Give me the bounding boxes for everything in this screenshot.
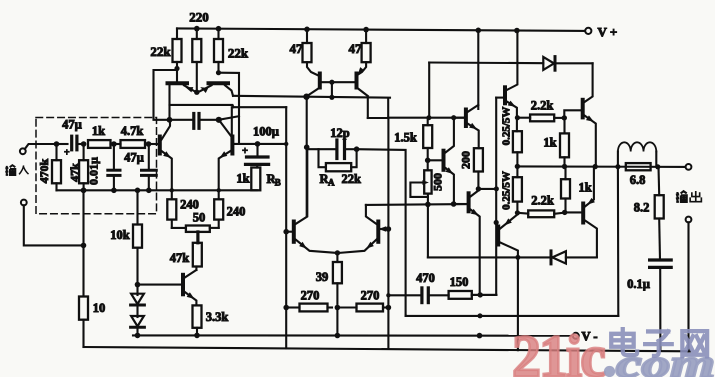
node: vert/470u wire <box>386 293 390 297</box>
wire: 10k feed vertical <box>82 190 84 296</box>
svg-text:47: 47 <box>290 41 304 56</box>
node: 200/Q12 collector <box>476 186 481 191</box>
svg-text:8.2: 8.2 <box>634 201 650 215</box>
diode D1 <box>136 285 138 295</box>
terminal input hot <box>20 148 26 154</box>
potentiometer 500 <box>424 170 431 193</box>
capacitor 100u <box>247 155 269 158</box>
node: bases/drive line <box>329 95 334 100</box>
node: 500/base line <box>425 202 431 208</box>
resistor 3.3k <box>193 305 202 327</box>
resistor 1k input <box>88 140 111 148</box>
capacitor 470u <box>420 288 423 303</box>
resistor 0.25/5W bottom <box>513 177 522 201</box>
resistor 4.7k <box>121 140 146 148</box>
node: rail/L right <box>655 164 660 169</box>
node: vert/270R <box>386 305 392 311</box>
resistor 470k <box>52 160 61 183</box>
transistor Q12 emitter w/arrow <box>471 210 480 295</box>
transistor Q1 collector lead <box>168 85 170 120</box>
resistor 240 left <box>167 199 176 219</box>
svg-text:270: 270 <box>361 289 380 303</box>
svg-text:47: 47 <box>349 41 363 56</box>
resistor 1.5k <box>423 125 432 148</box>
node: diode line/Q14 collector <box>515 255 520 260</box>
transistor Q9 collector <box>366 205 377 224</box>
transistor Q4 (feedback side, bar) <box>230 137 234 154</box>
transistor Q15 emitter w/arrow <box>585 116 596 167</box>
transistor Q10 collector <box>446 118 454 153</box>
node: 1.5k/Q10 base <box>425 158 431 164</box>
svg-text:B: B <box>275 178 281 188</box>
node: gnd/10k <box>135 188 141 194</box>
node: V- rail / x479 drop <box>477 333 483 339</box>
transistor Q13 emitter w/arrow <box>507 102 517 132</box>
transistor Q3 base lead <box>149 143 159 145</box>
transistor Q13 collector <box>507 31 518 91</box>
wire: left bootstrap loop <box>154 70 178 120</box>
transistor Q13 (pre-driver NPN, bar) <box>503 87 507 103</box>
node: gnd/0.01u <box>111 188 117 194</box>
node: 4.7k/base <box>146 141 152 147</box>
transistor Q11 base lead <box>454 117 465 119</box>
transistor Q5 (current source, bar) <box>181 275 185 295</box>
wire: drive line from 1st stage <box>233 96 390 98</box>
wire: V- rail <box>133 334 573 336</box>
transistor Q12 collector <box>471 191 479 197</box>
transistor Q16 emitter w/arrow <box>585 167 594 207</box>
transistor Q8 (diff2 left, bar) <box>292 222 296 242</box>
svg-text:1k: 1k <box>579 181 592 195</box>
transistor Q15 collector <box>585 63 593 102</box>
transistor Q6 collector <box>309 89 319 96</box>
svg-text:270: 270 <box>301 289 320 303</box>
capacitor 0.1u <box>650 258 672 261</box>
node: 10k/diodes/base <box>135 282 141 288</box>
potentiometer 50 <box>186 226 210 232</box>
node: emitter/2.2k top <box>515 115 520 120</box>
resistor 22k (left load) <box>173 39 182 62</box>
wire: 2nd stage box right <box>387 99 389 118</box>
transistor Q5 base lead <box>138 284 182 286</box>
transistor Q7 collector <box>358 89 368 97</box>
transistor Q1 (mirror left, bar) <box>168 81 188 85</box>
node: vert/diff2 right base <box>386 226 392 232</box>
node: D2/V- rail <box>135 333 141 339</box>
transistor Q4 collector <box>219 120 231 136</box>
resistor 1k top <box>560 133 569 157</box>
resistor 220 (first stage load middle) <box>192 39 201 62</box>
wire: top driver collector <box>477 30 479 109</box>
capacitor 0.01u <box>108 169 120 172</box>
transistor Q6 (2nd mirror left) <box>307 62 318 75</box>
diode D3 (bootstrap top) <box>429 61 543 64</box>
svg-text:22k: 22k <box>342 172 362 186</box>
node: 2.2k/1k top <box>562 115 567 120</box>
transistor Q14 (pre-driver PNP, bar) <box>496 227 500 245</box>
node: Q6/Q7 bases <box>329 80 334 85</box>
svg-text:V +: V + <box>598 25 618 40</box>
terminal input return <box>21 200 27 206</box>
svg-text:240: 240 <box>180 198 199 212</box>
transistor Q13 base lead <box>496 97 503 99</box>
svg-text:1k: 1k <box>543 136 556 150</box>
wire: V+ supply rail <box>177 28 585 31</box>
terminal V- <box>573 333 579 339</box>
wire: bottom bias bus <box>406 315 618 317</box>
node: C1/47k <box>81 141 87 147</box>
wire: x496 vertical <box>495 98 497 295</box>
wire: bias chain to diode line <box>427 204 429 257</box>
transistor Q15 base lead <box>564 110 581 118</box>
node: 150/bias chain <box>478 292 483 297</box>
transistor Q11 collector lead <box>468 105 479 112</box>
svg-text:47k: 47k <box>170 251 190 265</box>
transistor Q5 emitter w/arrow <box>185 292 197 305</box>
svg-text:47k: 47k <box>68 163 82 182</box>
transistor Q15 (output NPN, bar) <box>581 100 585 118</box>
node: rail/47R <box>363 27 369 33</box>
wire: 200 bottom <box>477 172 479 189</box>
wire: mirror bottom link <box>170 105 234 107</box>
svg-text:470: 470 <box>416 271 435 285</box>
transistor Q3 collector <box>162 121 171 140</box>
node: gnd bus / vertical <box>81 188 87 194</box>
wire: ground return rail <box>84 347 691 351</box>
transistor Q16 collector <box>585 221 597 257</box>
resistor 2.2k bottom <box>528 210 554 217</box>
wire: 2nd stage box bottom <box>368 117 388 119</box>
resistor 47 left <box>303 43 312 62</box>
svg-text:200: 200 <box>459 151 473 169</box>
svg-text:100µ: 100µ <box>253 125 279 139</box>
svg-text:1.5k: 1.5k <box>394 131 417 145</box>
wire: bases drop <box>331 82 333 97</box>
transistor Q5 collector <box>185 270 197 278</box>
node: bias bus/x480 <box>478 313 483 318</box>
transistor Q9 (diff2 right, bar) <box>376 222 380 242</box>
transistor Q11 (top driver, bar) <box>464 110 468 127</box>
resistor 6.8 <box>626 163 651 170</box>
node: gnd crossing left <box>170 188 174 192</box>
resistor 270 left <box>300 304 328 312</box>
resistor 10 <box>79 297 88 320</box>
node: rail/driver collector <box>476 28 482 34</box>
resistor 10k <box>133 225 142 248</box>
svg-text:22k: 22k <box>150 44 171 59</box>
resistor 150 <box>449 291 472 299</box>
node: return/10 resistor line <box>81 243 87 249</box>
svg-text:39: 39 <box>316 270 329 284</box>
dashed input network box <box>36 118 157 214</box>
wire: cap node to bootstrap <box>219 116 239 120</box>
svg-text:50: 50 <box>193 211 206 225</box>
node: rail/22k right <box>216 26 222 32</box>
node: x286/feedback <box>284 142 288 146</box>
resistor RB 1k <box>251 168 260 191</box>
svg-text:+: + <box>64 148 70 159</box>
svg-text:10: 10 <box>93 301 106 315</box>
resistor RA 22k <box>326 163 351 171</box>
svg-text:3.3k: 3.3k <box>206 310 229 324</box>
capacitor 47u shunt <box>142 169 157 172</box>
transistor Q4 base lead <box>234 143 258 145</box>
node: drive line/Q6 <box>303 94 309 100</box>
transistor Q14 collector <box>500 243 518 351</box>
transistor Q6 base wire <box>322 81 356 83</box>
node: Q10 emitter/base line <box>451 201 457 207</box>
node: bias feed/Q10 collector <box>451 115 456 120</box>
svg-text:470k: 470k <box>37 158 51 183</box>
node: 22k right bottom <box>216 70 221 75</box>
wire: diff2 collector to driver base <box>366 203 467 206</box>
node: diff2 common emitters <box>335 250 340 255</box>
node: RA right node <box>354 146 360 152</box>
label output (shu-chu) <box>676 191 701 202</box>
svg-text:21ic: 21ic <box>512 324 605 377</box>
capacitor C-neutralize <box>192 114 195 129</box>
resistor 47k tail <box>193 243 202 267</box>
wire: output return drop <box>687 222 689 351</box>
svg-text:500: 500 <box>431 173 445 191</box>
svg-text:150: 150 <box>450 275 469 289</box>
resistor 47k input <box>79 160 88 183</box>
diode D2 <box>136 305 138 317</box>
svg-text:2.2k: 2.2k <box>531 194 554 208</box>
wire: 189-link <box>478 188 496 190</box>
wire: 2nd stage box left <box>367 99 369 118</box>
svg-text:0.1µ: 0.1µ <box>627 277 650 291</box>
node: emitter/2.2k bottom <box>515 210 520 215</box>
node: collectors/cap right <box>216 117 222 123</box>
wire: x286 vertical <box>285 107 287 348</box>
wire: bias feed <box>388 117 464 119</box>
node: rail/220 <box>194 26 200 32</box>
node: 3.3k/V- rail <box>194 333 200 339</box>
transistor Q1 emitter lead w/arrow <box>184 85 195 91</box>
transistor Q8 collector <box>296 147 308 224</box>
wire: RA node to bias chain <box>357 149 406 316</box>
svg-text:6.8: 6.8 <box>630 173 646 187</box>
wire: diode rail feed <box>428 63 430 118</box>
transistor Q16 (output PNP, bar) <box>581 204 585 223</box>
node: rail/1k top <box>562 164 567 169</box>
transistor Q4 emitter w/arrow <box>219 151 231 199</box>
transistor Q7 (2nd mirror right) <box>358 62 366 74</box>
transistor Q14 emitter w/arrow <box>500 202 517 229</box>
svg-text:4.7k: 4.7k <box>121 124 144 138</box>
wire: long vertical (AC gnd leg) <box>387 118 389 349</box>
transistor Q3 emitter w/arrow <box>162 151 172 199</box>
terminal output hot <box>686 164 692 170</box>
resistor 8.2 <box>655 195 664 218</box>
svg-text:+: + <box>242 146 248 157</box>
node: rail/Q13 <box>514 28 520 34</box>
wire: feedback node to 2nd stage line <box>258 143 287 145</box>
resistor 1k bottom <box>561 179 570 198</box>
wire: 240R to pot <box>210 227 219 229</box>
node: 22k left bottom <box>174 66 179 71</box>
node: link/x496 <box>494 186 499 191</box>
wire: to C1 <box>57 143 68 145</box>
wire: input ground bus <box>57 189 257 191</box>
label input (shu-ru) <box>5 165 28 175</box>
node: 39/270s <box>335 305 341 311</box>
svg-text:1k: 1k <box>92 124 105 138</box>
resistor 22k (right load) <box>214 39 223 62</box>
node: rail/47L <box>304 27 310 33</box>
resistor 2.2k top <box>530 115 554 122</box>
node: x496/Q13 base <box>494 220 499 225</box>
transistor Q12 base lead <box>454 203 467 205</box>
transistor Q10 emitter w/arrow <box>446 168 454 204</box>
transistor Q12 (bottom driver, bar) <box>467 193 471 211</box>
svg-text:220: 220 <box>189 10 209 25</box>
wire: x496 bottom L <box>472 294 497 296</box>
node: rail/output emitters <box>593 164 598 169</box>
resistor 47 right <box>362 43 371 62</box>
node: x286/270L <box>283 305 289 311</box>
wire: zobel feedback line <box>617 167 619 316</box>
transistor Q10 (Vbe multiplier, bar) <box>442 151 446 170</box>
node: gnd/47u <box>146 188 152 194</box>
node: bias feed/1.5k <box>426 115 431 120</box>
svg-text:1k: 1k <box>236 172 249 186</box>
svg-text:10k: 10k <box>110 228 130 242</box>
transistor Q9 emitter w/arrow <box>339 240 377 253</box>
transistor Q2 (mirror right, bar) <box>209 81 229 85</box>
node: gnd/47k <box>81 188 87 194</box>
svg-text:0.25/5W: 0.25/5W <box>501 171 513 210</box>
wire: 500 to lower base line <box>427 194 429 205</box>
resistor 270 right <box>357 304 384 312</box>
capacitor 12p <box>335 140 338 159</box>
node: output node <box>515 164 520 169</box>
node: input/470k <box>54 141 60 147</box>
transistor Q8 base lead <box>286 231 292 233</box>
node: collectors/cap left <box>167 117 173 123</box>
node: 1k/4.7k <box>111 141 117 147</box>
node: feedback node <box>255 141 261 147</box>
svg-text:12p: 12p <box>330 126 350 140</box>
resistor 240 right <box>214 199 223 219</box>
wire: collector line 2 <box>234 106 287 108</box>
wire: input lead <box>25 144 57 149</box>
wire: bias bus left leg <box>405 315 407 317</box>
wire: tail drop <box>336 308 338 336</box>
node: RA left node <box>304 144 310 150</box>
transistor Q11 emitter w/arrow <box>468 124 479 149</box>
svg-text:47µ: 47µ <box>62 118 82 132</box>
transistor Q2 inner lead w/arrow <box>199 85 212 92</box>
svg-text:0.25/5W: 0.25/5W <box>501 107 513 146</box>
watermark dianziwang <box>611 329 707 356</box>
svg-text:47µ: 47µ <box>124 151 144 165</box>
transistor Q9 base lead <box>380 228 389 230</box>
transistor Q2 outer lead <box>225 85 233 96</box>
resistor 200 <box>474 148 483 171</box>
diode D4 (bootstrap bottom) <box>428 256 552 258</box>
node: rail/L left <box>615 164 620 169</box>
terminal V+ <box>585 28 591 34</box>
wire: 240L to pot <box>172 227 186 229</box>
node: x286/diff2 left base <box>283 229 289 235</box>
svg-text:A: A <box>328 178 335 188</box>
resistor 39 <box>333 262 342 283</box>
transistor Q10 base lead <box>428 159 442 161</box>
terminal output return <box>686 217 692 223</box>
capacitor 47u input (C1) <box>70 136 73 150</box>
transistor Q3 (input, bar) <box>158 137 162 154</box>
transistor Q16 base lead <box>565 211 582 213</box>
svg-text:0.01µ: 0.01µ <box>87 157 101 185</box>
transistor Q8 emitter w/arrow <box>296 240 337 253</box>
svg-text:22k: 22k <box>228 46 249 61</box>
wire: x307 vertical <box>306 97 308 216</box>
svg-text:2.2k: 2.2k <box>531 99 554 113</box>
wire: output rail <box>517 165 685 168</box>
resistor 0.25/5W top <box>513 131 522 152</box>
wire: input return to bias line <box>24 205 84 245</box>
node: V- rail / diff2 tail <box>335 333 341 339</box>
inductor L1 <box>617 152 619 167</box>
wire: bootstrap drop <box>219 73 240 144</box>
node: 2.2k/1k bottom <box>562 210 567 215</box>
node: mirror bases/220 <box>194 90 199 95</box>
svg-text:240: 240 <box>227 205 246 219</box>
node: gnd crossing right <box>217 188 221 192</box>
wire: 47k to Q5 collector <box>195 267 197 271</box>
